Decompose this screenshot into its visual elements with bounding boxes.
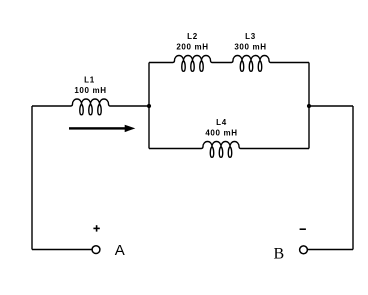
current arrow bbox=[69, 125, 135, 132]
wire: main horizontal left segment (left rail to L1) bbox=[32, 105, 71, 107]
inductor L1 bbox=[71, 99, 110, 115]
minus sign at terminal B bbox=[300, 228, 306, 230]
wire: left vertical of parallel section bbox=[148, 63, 150, 149]
inductor L2 bbox=[173, 56, 212, 72]
node: left junction bbox=[147, 104, 151, 108]
wire: right junction to right rail bbox=[309, 105, 353, 107]
wire: left rail vertical bbox=[31, 106, 33, 250]
inductor L4 bbox=[202, 142, 241, 158]
svg-text:L4: L4 bbox=[216, 118, 227, 127]
svg-text:A: A bbox=[115, 242, 125, 259]
plus sign at terminal A bbox=[93, 225, 99, 231]
inductor L3 bbox=[232, 56, 271, 72]
wire: right vertical of parallel section bbox=[308, 63, 310, 149]
wire: top branch after L3 bbox=[271, 62, 310, 64]
svg-text:L2: L2 bbox=[187, 32, 198, 41]
wire: right rail to terminal B bbox=[308, 249, 353, 251]
wire: top branch between L2 and L3 bbox=[212, 62, 232, 64]
node: right junction bbox=[307, 104, 311, 108]
svg-text:B: B bbox=[273, 245, 284, 262]
wire: L1 to left junction node bbox=[110, 105, 149, 107]
svg-text:300 mH: 300 mH bbox=[234, 43, 266, 52]
wire: right rail vertical bbox=[352, 106, 354, 250]
terminal A circle bbox=[92, 246, 100, 254]
svg-text:200 mH: 200 mH bbox=[176, 43, 208, 52]
svg-text:100 mH: 100 mH bbox=[74, 86, 106, 95]
svg-text:400 mH: 400 mH bbox=[205, 129, 237, 138]
svg-text:L1: L1 bbox=[84, 75, 95, 84]
wire: top branch before L2 bbox=[149, 62, 173, 64]
wire: bottom branch after L4 bbox=[241, 148, 310, 150]
wire: bottom branch before L4 bbox=[149, 148, 202, 150]
wire: left rail to terminal A bbox=[32, 249, 92, 251]
svg-text:L3: L3 bbox=[245, 32, 256, 41]
terminal B circle bbox=[300, 246, 308, 254]
